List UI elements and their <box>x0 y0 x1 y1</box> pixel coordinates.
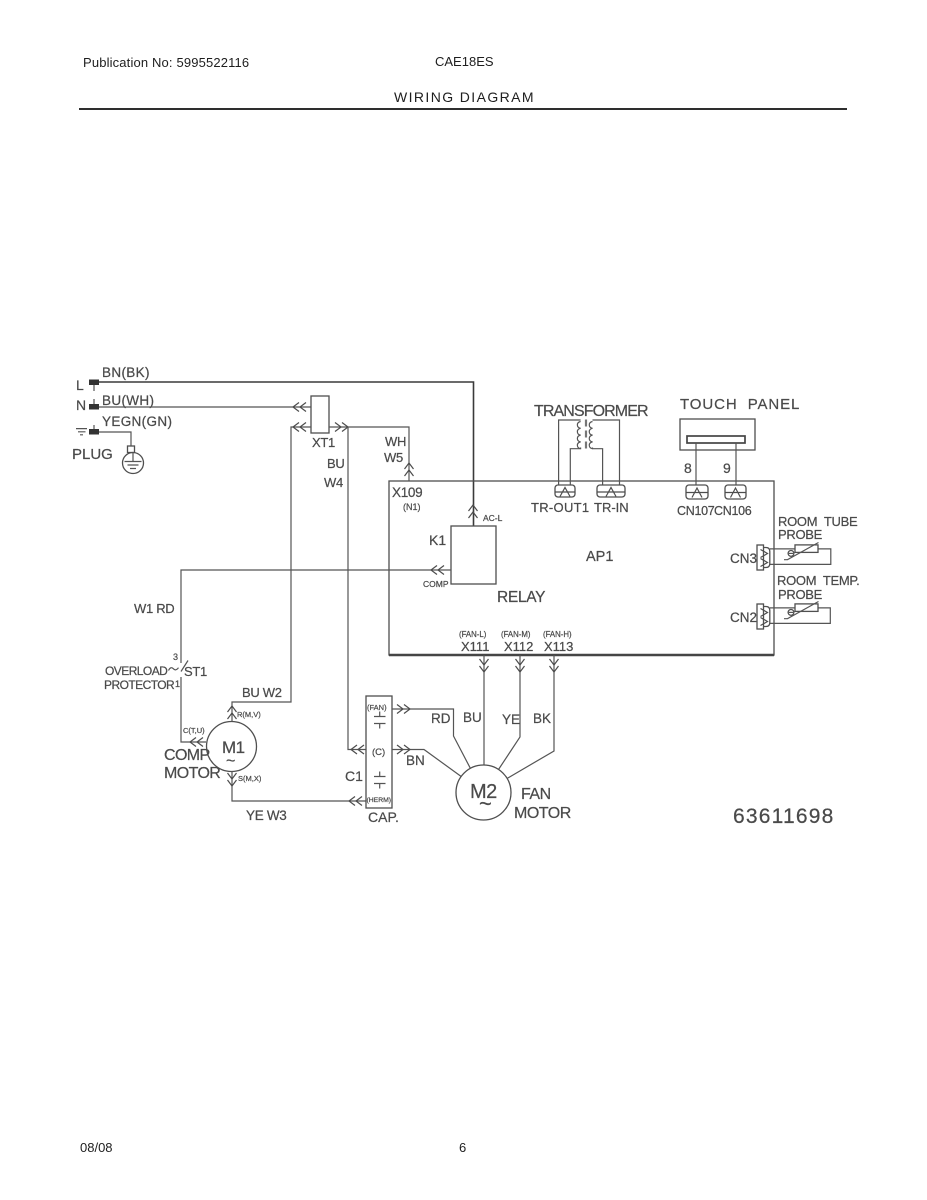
svg-text:TRANSFORMER: TRANSFORMER <box>534 403 648 420</box>
room temp probe thermistor <box>770 602 831 624</box>
label R(M,V) <box>237 710 261 719</box>
header title WIRING DIAGRAM <box>394 89 535 105</box>
wire touch panel pin 9 <box>735 443 737 485</box>
label YEGN(GN) <box>102 414 172 429</box>
connector arrows X111 <box>480 659 489 672</box>
part number 63611698 <box>733 805 834 828</box>
svg-text:BU: BU <box>327 456 344 471</box>
label W1 RD <box>134 601 174 616</box>
connector arrows FAN out <box>397 705 410 714</box>
wire M1 S to capacitor HERM (YE W3) <box>232 771 366 801</box>
label 3 <box>173 652 178 662</box>
wire COMP relay to overload protector to M1 <box>181 570 451 742</box>
wire X111 BU to fan motor <box>483 655 485 765</box>
label COMP MOTOR <box>164 747 220 782</box>
svg-text:~: ~ <box>479 791 492 816</box>
label XT1 <box>312 435 335 450</box>
svg-text:W1 RD: W1 RD <box>134 601 174 616</box>
label ST1 <box>184 664 207 679</box>
connector arrows X113 <box>550 659 559 672</box>
labels X111 X112 X113 <box>461 639 573 654</box>
svg-text:WH: WH <box>385 434 406 449</box>
svg-text:CN107: CN107 <box>677 504 715 518</box>
svg-text:(C): (C) <box>372 747 385 758</box>
wire L BN(BK) to relay AC-L <box>99 382 474 526</box>
label (C) <box>372 747 385 758</box>
svg-text:CN3: CN3 <box>730 551 757 566</box>
connector CN3 <box>757 545 770 570</box>
connector arrows capacitor C left <box>351 745 364 754</box>
svg-text:YEGN(GN): YEGN(GN) <box>102 414 172 429</box>
svg-text:COMP: COMP <box>164 747 210 764</box>
label RD <box>431 711 451 726</box>
wire XT1 left to compressor motor R (BU W2) <box>232 427 311 722</box>
label YE W3 <box>246 808 287 823</box>
transformer core <box>585 420 587 453</box>
svg-text:X113: X113 <box>544 639 573 654</box>
svg-text:CN106: CN106 <box>714 504 752 518</box>
svg-text:TR-OUT1: TR-OUT1 <box>531 500 589 515</box>
label COMP small <box>423 579 449 589</box>
svg-text:63611698: 63611698 <box>733 805 834 828</box>
capacitor element HERM <box>374 772 386 789</box>
svg-text:YE: YE <box>502 712 520 727</box>
svg-text:RELAY: RELAY <box>497 589 545 606</box>
connector arrows COMP <box>431 566 444 575</box>
svg-text:CAP.: CAP. <box>368 809 399 825</box>
wire capacitor C to fan motor (BN) <box>392 750 461 777</box>
svg-text:W5: W5 <box>384 450 403 465</box>
label (HERM) <box>367 797 392 804</box>
label BN(BK) <box>102 365 150 380</box>
svg-text:(FAN-L): (FAN-L) <box>459 630 487 639</box>
wire capacitor FAN to fan motor (RD) <box>392 709 470 768</box>
footer page number <box>459 1140 466 1155</box>
label TR-IN <box>594 500 629 515</box>
label YE wire <box>502 712 520 727</box>
svg-text:Publication No: 5995522116: Publication No: 5995522116 <box>83 55 249 70</box>
wire ground to plug earth electrode <box>99 432 131 446</box>
svg-text:OVERLOAD: OVERLOAD <box>105 664 168 678</box>
touch panel box <box>680 419 755 450</box>
svg-text:WIRING DIAGRAM: WIRING DIAGRAM <box>394 89 535 105</box>
transformer primary winding <box>559 420 581 485</box>
svg-text:BN(BK): BN(BK) <box>102 365 150 380</box>
connector arrows C out <box>397 745 410 754</box>
wire N BU(WH) to XT1 <box>99 406 311 408</box>
svg-text:6: 6 <box>459 1140 466 1155</box>
label K1 <box>429 532 446 548</box>
label BK wire <box>533 711 551 726</box>
fan motor M2 <box>456 765 511 820</box>
relay K1 box <box>451 526 496 584</box>
labels (FAN-L) (FAN-M) (FAN-H) <box>459 630 572 639</box>
svg-text:ROOM TEMP.: ROOM TEMP. <box>777 573 859 588</box>
terminal N <box>89 399 99 410</box>
header rule <box>79 108 847 110</box>
label 9 <box>723 460 731 476</box>
header publication number <box>83 55 249 70</box>
svg-text:AP1: AP1 <box>586 549 613 565</box>
wire WH W5 to X109 <box>348 427 409 481</box>
label FAN MOTOR <box>514 786 571 822</box>
svg-text:TOUCH PANEL: TOUCH PANEL <box>680 396 800 413</box>
svg-text:(FAN-H): (FAN-H) <box>543 630 572 639</box>
control board AP1 box <box>389 481 774 655</box>
svg-text:CAE18ES: CAE18ES <box>435 54 494 69</box>
wire BU W4 to capacitor C terminal <box>348 427 366 750</box>
label CN3 <box>730 551 757 566</box>
connector CN107 <box>686 485 708 499</box>
label ROOM TEMP PROBE <box>777 573 859 602</box>
svg-text:(FAN): (FAN) <box>367 703 387 712</box>
svg-text:PROTECTOR: PROTECTOR <box>104 678 175 692</box>
connector TR-OUT1 <box>555 485 575 497</box>
svg-text:C(T,U): C(T,U) <box>183 726 205 735</box>
connector arrows X109 <box>405 463 414 476</box>
label BU W2 <box>242 685 282 700</box>
svg-text:C1: C1 <box>345 768 363 784</box>
connector arrows S down <box>228 773 237 786</box>
label S(M,X) <box>238 774 262 783</box>
label RELAY <box>497 589 545 606</box>
connector arrows XT1 right <box>335 423 348 432</box>
room tube probe thermistor <box>770 543 831 565</box>
label CN106 <box>714 504 752 518</box>
svg-text:9: 9 <box>723 460 731 476</box>
footer date <box>80 1140 113 1155</box>
svg-text:RD: RD <box>431 711 451 726</box>
label OVERLOAD PROTECTOR <box>104 664 175 692</box>
label (FAN) <box>367 703 387 712</box>
terminal block XT1 <box>311 396 329 433</box>
label BU(WH) <box>102 393 154 408</box>
svg-text:CN2: CN2 <box>730 610 757 625</box>
overload protector ST1 <box>169 661 189 672</box>
wire XT1 right junction <box>329 426 348 428</box>
terminal L <box>89 380 99 392</box>
connector arrows XT1 left <box>293 423 306 432</box>
svg-text:BU W2: BU W2 <box>242 685 282 700</box>
svg-text:3: 3 <box>173 652 178 662</box>
terminal ground <box>89 425 99 435</box>
label TR-OUT1 <box>531 500 589 515</box>
label BN <box>406 753 425 768</box>
label 8 <box>684 460 692 476</box>
svg-text:MOTOR: MOTOR <box>164 765 220 782</box>
svg-text:AC-L: AC-L <box>483 513 503 523</box>
label L <box>76 377 84 393</box>
touch panel label <box>680 396 800 413</box>
svg-text:COMP: COMP <box>423 579 449 589</box>
label 1 <box>175 679 180 689</box>
transformer label <box>534 403 648 420</box>
label C(T,U) <box>183 726 205 735</box>
connector arrows R(M,V) <box>228 706 237 719</box>
svg-text:(FAN-M): (FAN-M) <box>501 630 531 639</box>
label WH W5 <box>384 434 406 465</box>
compressor motor M1 <box>207 722 257 772</box>
label N <box>76 397 86 413</box>
label CAP. <box>368 809 399 825</box>
svg-text:8: 8 <box>684 460 692 476</box>
connector arrows AC-L <box>469 505 478 518</box>
label BU W4 <box>324 456 344 490</box>
svg-text:S(M,X): S(M,X) <box>238 774 262 783</box>
svg-text:(HERM): (HERM) <box>367 797 392 804</box>
svg-text:XT1: XT1 <box>312 435 335 450</box>
svg-text:PROBE: PROBE <box>778 587 823 602</box>
svg-text:L: L <box>76 377 84 393</box>
svg-text:X112: X112 <box>504 639 533 654</box>
header model number <box>435 54 494 69</box>
svg-text:TR-IN: TR-IN <box>594 500 629 515</box>
wire X112 YE to fan motor <box>499 655 521 770</box>
svg-text:MOTOR: MOTOR <box>514 805 571 822</box>
label AP1 <box>586 549 613 565</box>
capacitor element FAN <box>374 712 386 729</box>
label CN2 <box>730 610 757 625</box>
connector CN106 <box>725 485 746 499</box>
svg-text:BU(WH): BU(WH) <box>102 393 154 408</box>
connector X109 label <box>392 485 422 512</box>
label CN107 <box>677 504 715 518</box>
svg-text:BN: BN <box>406 753 425 768</box>
label AC-L <box>483 513 503 523</box>
svg-text:PLUG: PLUG <box>72 446 113 463</box>
svg-text:08/08: 08/08 <box>80 1140 113 1155</box>
connector arrows C(T,U) <box>190 738 203 747</box>
svg-text:1: 1 <box>175 679 180 689</box>
connector TR-IN <box>597 485 625 497</box>
label ROOM TUBE PROBE <box>778 514 858 542</box>
label PLUG <box>72 446 113 463</box>
svg-text:~: ~ <box>226 753 235 770</box>
wire X113 BK to fan motor <box>507 655 554 779</box>
svg-text:FAN: FAN <box>521 786 551 803</box>
label C1 <box>345 768 363 784</box>
connector arrows on N wire <box>293 403 306 412</box>
svg-text:ST1: ST1 <box>184 664 207 679</box>
connector arrows capacitor HERM <box>349 797 362 806</box>
svg-text:BK: BK <box>533 711 551 726</box>
svg-text:YE W3: YE W3 <box>246 808 287 823</box>
transformer secondary winding <box>589 420 619 485</box>
capacitor C1 box <box>366 696 392 808</box>
svg-text:BU: BU <box>463 710 482 725</box>
connector arrows X112 <box>516 659 525 672</box>
svg-text:X109: X109 <box>392 485 422 500</box>
svg-text:W4: W4 <box>324 475 343 490</box>
svg-text:R(M,V): R(M,V) <box>237 710 261 719</box>
svg-text:N: N <box>76 397 86 413</box>
svg-text:K1: K1 <box>429 532 446 548</box>
svg-text:X111: X111 <box>461 639 489 654</box>
ground symbol at plug terminal <box>76 429 87 435</box>
svg-text:PROBE: PROBE <box>778 527 823 542</box>
connector CN2 <box>757 604 770 629</box>
label BU wire <box>463 710 482 725</box>
plug earth electrode <box>123 446 144 474</box>
wire touch panel pin 8 <box>695 443 697 485</box>
svg-text:(N1): (N1) <box>403 502 421 512</box>
